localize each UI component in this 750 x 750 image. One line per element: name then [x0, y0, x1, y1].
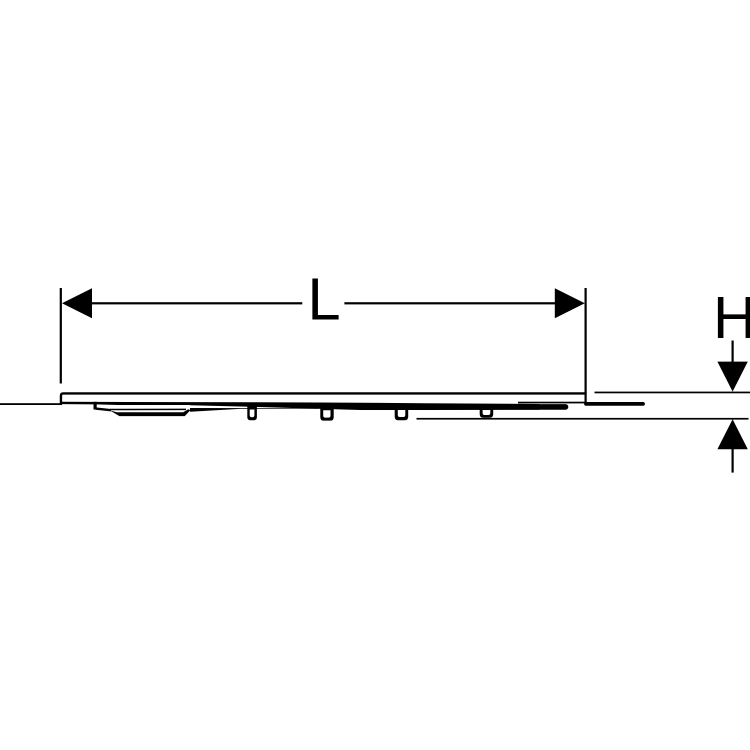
arrowhead H down — [717, 362, 747, 392]
extension line left — [60, 288, 62, 384]
arrowhead H up — [717, 419, 747, 449]
extension line right — [585, 288, 587, 403]
foot 4 notch — [483, 410, 491, 415]
arrowhead L left — [62, 288, 92, 318]
tray underside rounded end — [541, 404, 566, 410]
foot 1 outer — [247, 406, 257, 421]
dimension H lower stem — [732, 448, 734, 473]
tray flange underside line — [62, 402, 190, 405]
svg-text:L: L — [307, 266, 340, 333]
floor line left — [0, 403, 62, 405]
foot 1 notch — [250, 410, 255, 418]
membrane line middle — [518, 402, 586, 404]
foot 2 outer — [320, 406, 333, 421]
dimension H upper stem — [732, 341, 734, 364]
reference line bottom (foot level) — [417, 418, 749, 420]
membrane flap right — [586, 402, 643, 406]
foot 3 outer — [395, 406, 409, 421]
underside thin lower line — [190, 408, 318, 412]
tray top surface and left edge — [61, 393, 587, 404]
tray underside band — [190, 402, 540, 410]
foot 4 outer — [480, 406, 494, 418]
tray underside step — [94, 402, 97, 410]
drain strip bottom band — [110, 409, 191, 416]
drain strip top line — [110, 408, 186, 410]
drain channel slope line — [96, 409, 112, 411]
dimension line L left segment — [91, 302, 302, 304]
reference line top (surface level) — [595, 392, 750, 394]
arrowhead L right — [555, 288, 585, 318]
foot 3 notch — [398, 410, 406, 417]
dimension line L right segment — [344, 302, 556, 304]
foot 2 notch — [323, 410, 330, 417]
